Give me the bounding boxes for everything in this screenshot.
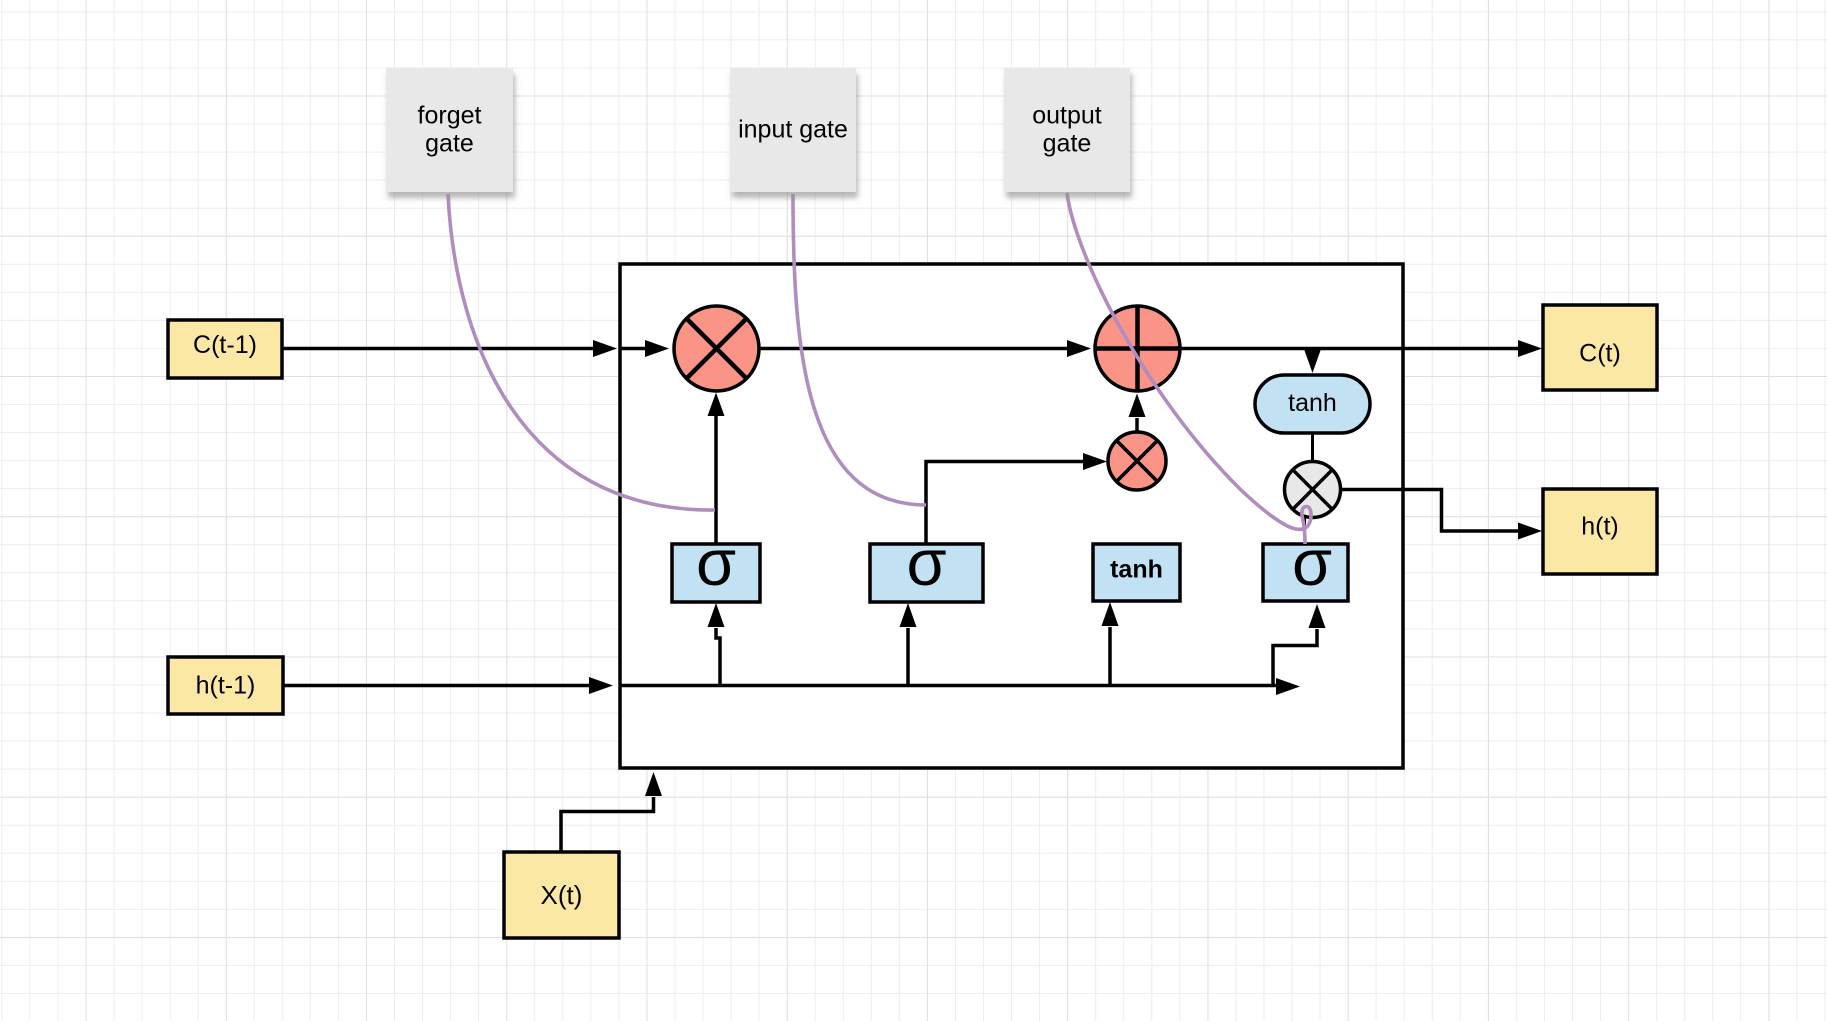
tanh pill: [1255, 375, 1370, 433]
wire sigma2 elbow to input multiply: [926, 453, 1107, 544]
wire C(t-1) to cell edge: [282, 340, 617, 357]
wire output multiply to h(t): [1340, 490, 1542, 540]
svg-text:forget: forget: [418, 102, 482, 130]
wire input multiply to add gate: [1129, 394, 1146, 433]
svg-text:tanh: tanh: [1288, 389, 1337, 417]
purple curve forget gate: [448, 194, 715, 510]
wire tanh pill to output multiply: [1311, 433, 1314, 462]
svg-text:σ: σ: [696, 526, 736, 599]
wire multiply gate f to add gate: [759, 340, 1091, 357]
node C(t): [1543, 305, 1657, 390]
input multiply gate (small circle with X): [1108, 432, 1166, 490]
node X(t): [504, 852, 619, 938]
svg-text:h(t-1): h(t-1): [196, 672, 256, 700]
wire branch down to tanh pill: [1304, 349, 1321, 374]
svg-text:C(t-1): C(t-1): [193, 331, 257, 359]
note input gate: [730, 68, 856, 192]
purple curve input gate: [793, 194, 926, 505]
note output gate: [1004, 68, 1130, 192]
wire riser to sigma2: [900, 603, 917, 686]
LSTM cell body rectangle: [620, 264, 1403, 768]
sigma2 box: [870, 526, 983, 602]
svg-text:tanh: tanh: [1110, 556, 1163, 584]
output multiply gate (gray circle with X): [1285, 462, 1341, 518]
sigma4 box: [1263, 526, 1348, 601]
wire riser to tanh box: [1102, 602, 1119, 686]
svg-text:h(t): h(t): [1581, 513, 1619, 541]
wire cell edge to multiply gate f: [620, 340, 669, 357]
note forget gate: [386, 68, 513, 192]
wire X(t) to cell bottom: [561, 772, 662, 852]
node C(t-1): [168, 320, 282, 378]
svg-text:gate: gate: [1043, 130, 1092, 158]
svg-text:σ: σ: [906, 526, 946, 599]
svg-text:gate: gate: [425, 130, 474, 158]
wire riser to sigma1: [708, 603, 725, 686]
add gate (circle with plus): [1095, 306, 1180, 391]
sigma1 box: [672, 526, 760, 602]
wire h(t-1) to cell edge: [283, 677, 613, 694]
wire h recurrent inside cell: [620, 678, 1300, 695]
wire sigma1 to multiply gate f: [708, 393, 725, 545]
node h(t-1): [168, 657, 283, 714]
svg-text:σ: σ: [1292, 526, 1332, 599]
tanh box: [1093, 544, 1180, 601]
svg-text:output: output: [1032, 102, 1102, 130]
wire add gate to C(t): [1181, 340, 1542, 357]
purple curve output gate: [1067, 193, 1311, 544]
svg-text:input gate: input gate: [738, 116, 848, 144]
wire output multiply to sigma4: [1304, 516, 1306, 544]
wire riser to sigma4: [1273, 604, 1326, 686]
multiply gate f (forget, circle with X): [674, 306, 759, 391]
node h(t): [1543, 489, 1657, 574]
svg-text:C(t): C(t): [1579, 340, 1621, 368]
svg-text:X(t): X(t): [541, 880, 583, 910]
